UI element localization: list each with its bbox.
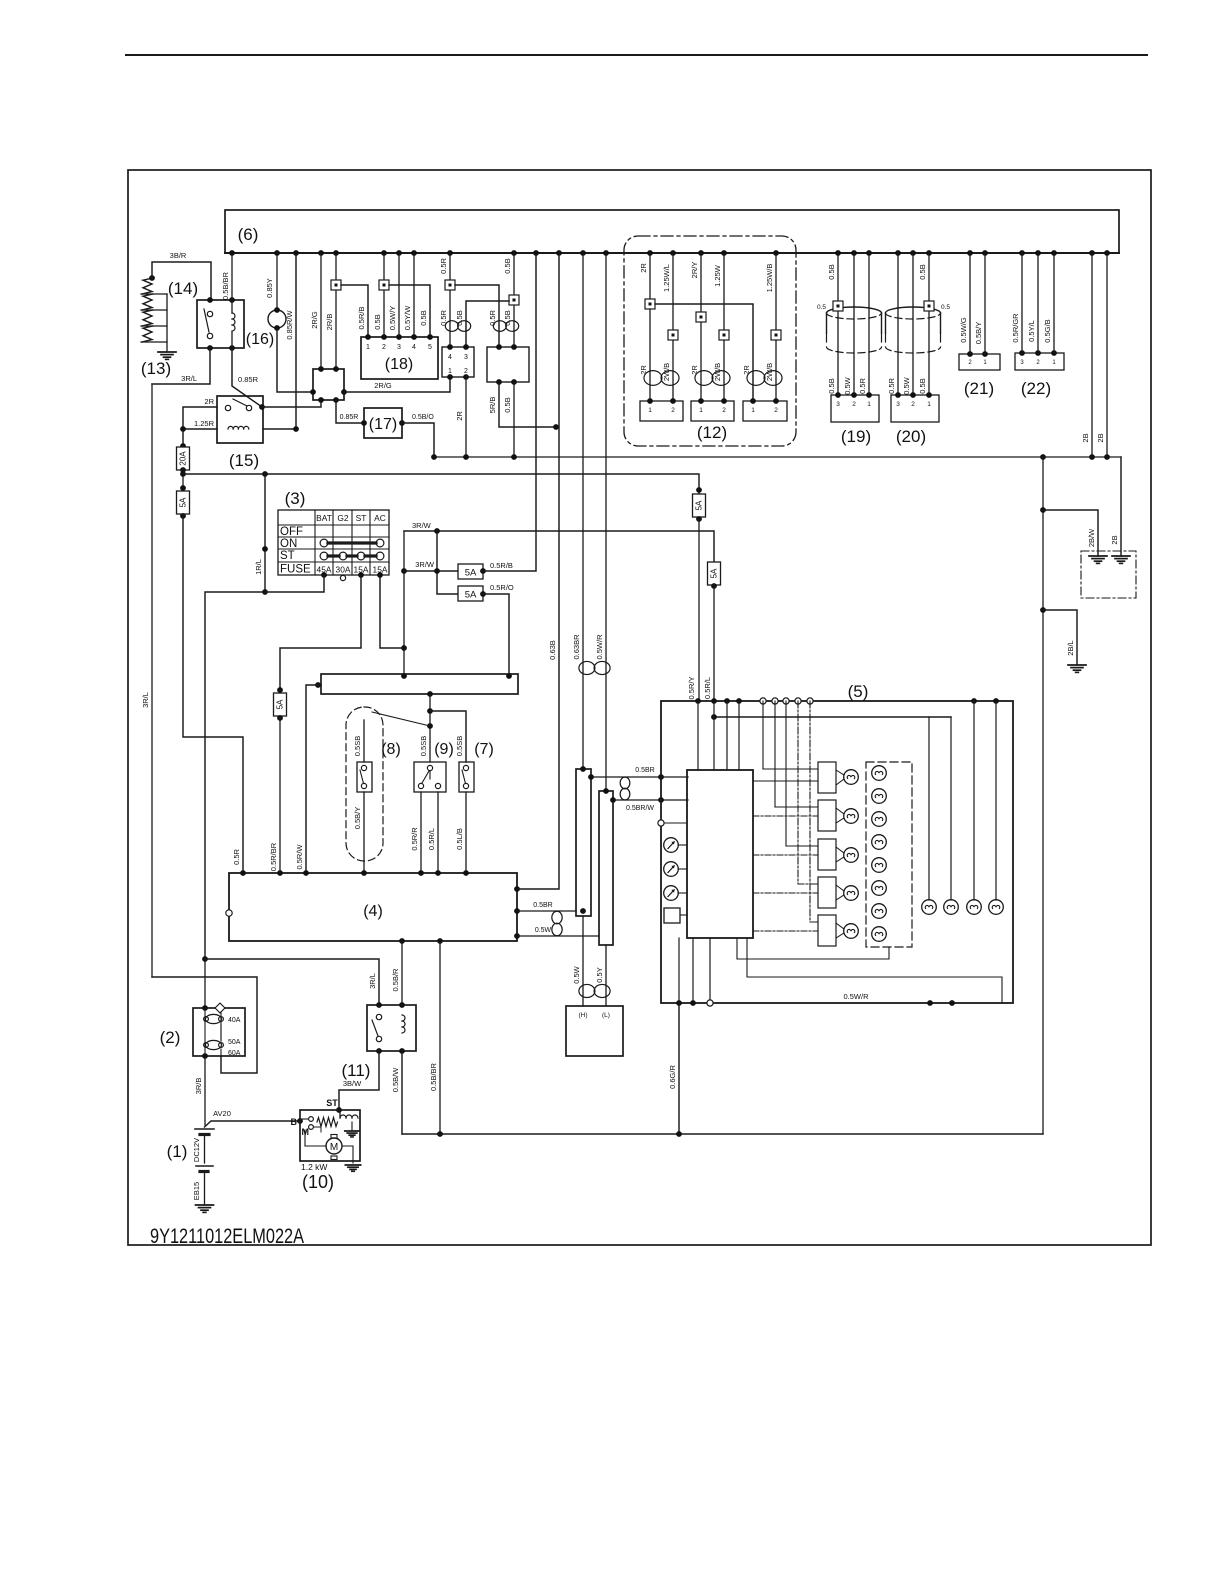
svg-text:1.25R: 1.25R: [194, 419, 215, 428]
twist pair second: [493, 321, 518, 332]
wire 60A to 3R/L riser: [152, 977, 257, 1073]
panel bottom rail 0.5W/R: [676, 992, 955, 1006]
ground box dashed: [1081, 551, 1136, 598]
svg-text:4: 4: [448, 354, 452, 361]
svg-text:0.5BR: 0.5BR: [635, 767, 654, 774]
wire (14) coil to node: [231, 332, 233, 348]
wire 0.5R/L (9) to (4): [427, 792, 438, 873]
wire 2B bus drop a: [1081, 253, 1092, 457]
svg-text:3B/R: 3B/R: [170, 251, 187, 260]
svg-text:(16): (16): [246, 331, 274, 348]
svg-text:1: 1: [983, 360, 987, 366]
svg-text:(19): (19): [841, 427, 871, 446]
connector square inj1b: [668, 330, 678, 340]
svg-text:2B/W: 2B/W: [1087, 528, 1096, 547]
wire 0.5R/BR fuse to (4): [269, 717, 280, 873]
svg-text:0.6G/R: 0.6G/R: [668, 1065, 677, 1089]
wire 0.5B/O from (17): [402, 414, 434, 457]
svg-text:2: 2: [1036, 360, 1040, 366]
wires pcb to lamp rows: [753, 701, 818, 931]
wires right lamps up: [929, 701, 996, 900]
battery (1): [167, 1129, 214, 1205]
wire 0.5W sender19 pin2: [843, 253, 854, 395]
connector square inj3b: [771, 330, 781, 340]
svg-text:ST: ST: [326, 1098, 338, 1108]
svg-text:AV20: AV20: [213, 1109, 231, 1118]
svg-text:0.5R/BR: 0.5R/BR: [269, 842, 278, 871]
svg-text:2: 2: [722, 407, 726, 414]
svg-text:0.5R: 0.5R: [232, 848, 241, 864]
svg-text:0.63BR: 0.63BR: [572, 634, 581, 660]
svg-text:1: 1: [648, 407, 652, 414]
svg-text:2: 2: [464, 368, 468, 375]
wire 0.5R fuse to controller (4): [183, 514, 243, 873]
fuse 5A 0.5R/Y: [693, 487, 706, 522]
wire 0.5B link to (18) pin5: [389, 285, 430, 337]
wire battery trunk: [194, 956, 208, 1094]
drawing number label: [150, 1225, 304, 1249]
svg-text:(20): (20): [896, 427, 926, 446]
fuse 5A 0.5R/O: [458, 586, 486, 601]
lamp connector row: [818, 762, 836, 946]
svg-text:0.5B: 0.5B: [503, 258, 512, 273]
svg-text:30A: 30A: [336, 565, 351, 575]
wire 2B/L ground: [1043, 610, 1077, 665]
connector square inj2: [696, 312, 706, 322]
wire 0.5L/B (7) to (4): [455, 792, 466, 873]
svg-text:0.5B/BR: 0.5B/BR: [221, 271, 230, 300]
svg-text:2: 2: [852, 401, 856, 408]
svg-text:0.63B: 0.63B: [548, 640, 557, 660]
wire ground trunk bottom: [402, 1131, 1043, 1137]
svg-text:5R/B: 5R/B: [488, 397, 497, 414]
svg-text:5A: 5A: [465, 590, 477, 601]
connector strip: [315, 673, 518, 697]
svg-text:(18): (18): [385, 356, 413, 373]
svg-text:(H): (H): [578, 1012, 587, 1019]
svg-text:3: 3: [464, 354, 468, 361]
wire bus from (6): [225, 252, 1119, 254]
svg-text:0.5B: 0.5B: [918, 378, 927, 393]
svg-text:(9): (9): [434, 741, 454, 758]
ground glow plugs: [158, 352, 176, 359]
svg-text:0.5W/G: 0.5W/G: [959, 317, 968, 343]
wire 2B bus drop b: [1096, 253, 1107, 457]
ground 2B/L: [1068, 665, 1086, 672]
svg-text:0.5L/B: 0.5L/B: [455, 828, 464, 850]
wire 3B/R glow to relay (14): [152, 251, 211, 301]
ground 2B/W: [1089, 556, 1107, 563]
connector square 2R/B: [331, 280, 341, 290]
svg-text:2B: 2B: [1110, 535, 1119, 544]
wire 2R inj1: [639, 253, 650, 299]
twist pair meter: [579, 661, 610, 674]
wire 2R/B bus drop: [325, 253, 336, 369]
glow plugs (13): [141, 275, 171, 378]
link internal wires: [205, 1008, 221, 1056]
wire 3R/W riser: [401, 531, 407, 674]
junction box: [310, 366, 347, 403]
svg-text:G2: G2: [337, 513, 349, 523]
svg-text:0.5R/O: 0.5R/O: [490, 583, 514, 592]
wire 0.5W meter H: [572, 908, 586, 1006]
panel open node: [658, 820, 687, 826]
svg-text:2W/B: 2W/B: [765, 363, 774, 381]
wire 0.5B sender20 pin1: [918, 253, 929, 395]
svg-text:(12): (12): [697, 423, 727, 442]
svg-text:0.5R: 0.5R: [858, 377, 867, 393]
svg-text:0.5: 0.5: [941, 304, 950, 311]
wire 0.5R/O to strip: [483, 583, 514, 674]
glow plug connector 3: [743, 398, 787, 421]
svg-text:DC12V: DC12V: [192, 1138, 201, 1162]
twist pair inj1: [644, 371, 679, 386]
connector square 19: [817, 301, 843, 311]
lamp ground return: [737, 938, 889, 959]
svg-text:5A: 5A: [276, 699, 285, 709]
wire battery positive: [204, 1056, 206, 1125]
svg-text:2: 2: [911, 401, 915, 408]
svg-text:(8): (8): [381, 741, 401, 758]
svg-text:5A: 5A: [465, 568, 477, 579]
svg-text:(2): (2): [160, 1028, 181, 1047]
glow harness boundary (12): [624, 236, 796, 446]
connector (22): [1015, 350, 1064, 398]
svg-text:(4): (4): [363, 903, 383, 920]
node 30A: [340, 575, 345, 580]
connector square 0.5R: [445, 280, 455, 290]
svg-text:1: 1: [448, 368, 452, 375]
wire 0.5R bus to sensor box: [439, 253, 450, 347]
svg-text:3R/W: 3R/W: [412, 521, 432, 530]
wire 0.5B/R (4) to (11) coil: [391, 941, 402, 1005]
wire 1.25W/L inj1: [662, 253, 673, 401]
wire 0.5R/W strip to (4): [295, 685, 321, 873]
svg-text:2R/G: 2R/G: [374, 381, 392, 390]
wire 0.5R/B to bus: [483, 253, 536, 571]
temp sender (20): [886, 307, 941, 446]
wire 0.5G/B: [1043, 253, 1054, 353]
svg-text:0.5R/B: 0.5R/B: [357, 307, 366, 330]
svg-text:0.5W: 0.5W: [535, 927, 552, 934]
wire 0.5Y meter L: [595, 945, 606, 1006]
svg-text:OFF: OFF: [280, 526, 303, 538]
meter panel (5): [661, 682, 1013, 1003]
switch (8): [353, 720, 401, 792]
svg-text:0.5B: 0.5B: [918, 264, 927, 279]
svg-text:3R/B: 3R/B: [194, 1078, 203, 1095]
svg-text:3R/L: 3R/L: [141, 692, 150, 708]
svg-text:2R: 2R: [455, 411, 464, 421]
svg-text:(14): (14): [168, 279, 198, 298]
key switch (3): [278, 489, 389, 576]
wire 2R/G junction to glow controller: [344, 377, 450, 392]
connector square 20: [924, 301, 950, 311]
svg-text:0.5B/Y: 0.5B/Y: [353, 807, 362, 830]
wire 0.5B/O trunk: [431, 454, 1121, 460]
svg-text:0.5SB: 0.5SB: [353, 736, 362, 756]
svg-text:(21): (21): [964, 379, 994, 398]
fuel sender (19): [827, 307, 882, 446]
wire (15) contact to junction box: [262, 400, 321, 407]
svg-text:50A: 50A: [228, 1039, 241, 1046]
wire 0.5B/Y (8) to (4): [353, 792, 364, 873]
wire link to second box: [455, 285, 499, 347]
ground 2B: [1110, 535, 1130, 563]
svg-text:2: 2: [382, 344, 386, 351]
wire strip to switches: [427, 694, 433, 762]
switch (9): [414, 736, 454, 792]
svg-text:3: 3: [397, 344, 401, 351]
svg-text:0.5B: 0.5B: [419, 310, 428, 325]
wire 3R/W upper to fuse: [404, 521, 714, 562]
gauge volt: [664, 886, 687, 901]
switch (7): [430, 711, 494, 792]
panel pcb: [687, 770, 753, 938]
svg-text:0.5R/R: 0.5R/R: [410, 827, 419, 851]
connector square 0.5B right: [509, 295, 519, 305]
wire 2B/W ground: [1043, 510, 1098, 556]
wire 0.5R/R (9) to (4): [410, 792, 421, 873]
sensor box second: [487, 344, 529, 385]
wire 2R to main line: [455, 377, 466, 457]
connector square inj1: [645, 299, 655, 309]
wire branch 2R to inj3: [655, 304, 753, 401]
svg-text:5A: 5A: [695, 500, 704, 510]
ground battery: [196, 1205, 214, 1212]
wire 0.5W/G: [959, 253, 970, 354]
svg-text:0.5B: 0.5B: [503, 397, 512, 412]
wire 0.5R/B link to (18) pin1: [341, 285, 368, 337]
svg-text:0.5BR/W: 0.5BR/W: [626, 805, 654, 812]
bus junction nodes: [229, 250, 1110, 256]
svg-text:3B/W: 3B/W: [343, 1079, 362, 1088]
wire 0.5B bus to (18) pin2: [373, 253, 384, 337]
svg-text:0.5B/O: 0.5B/O: [412, 414, 434, 421]
svg-text:5: 5: [428, 344, 432, 351]
svg-text:0.5Y: 0.5Y: [595, 967, 604, 982]
wire AC pin: [377, 572, 404, 648]
svg-text:0.5R/GR: 0.5R/GR: [1011, 313, 1020, 343]
svg-text:3R/L: 3R/L: [368, 973, 377, 989]
wire 1.25R (15) coil left: [180, 419, 217, 449]
svg-text:0.5B: 0.5B: [827, 378, 836, 393]
sensor box first: [442, 344, 474, 380]
wire 3R/L from (14) switch: [152, 348, 210, 384]
ground return trunk: [1040, 457, 1046, 1134]
label 60A: [228, 1050, 241, 1057]
svg-text:EB15: EB15: [192, 1182, 201, 1200]
svg-text:2R: 2R: [204, 397, 214, 406]
wire 0.5W (4) to connector B: [517, 927, 599, 936]
wire 0.5B/W (11) coil down: [391, 1051, 402, 1134]
wire 0.85R/W bus to (15) coil: [263, 253, 299, 432]
twist pair inj3: [747, 371, 782, 386]
fuse 5A left: [177, 485, 190, 519]
svg-text:2B: 2B: [1096, 433, 1105, 442]
wire 0.5B/BR bus to (14) coil: [221, 253, 232, 313]
svg-text:(3): (3): [285, 489, 306, 508]
svg-text:0.5R/B: 0.5R/B: [490, 561, 513, 570]
sender connector 20: [891, 392, 939, 422]
svg-text:1.25W/L: 1.25W/L: [662, 264, 671, 292]
twist pair first: [445, 321, 470, 332]
svg-text:0.5R: 0.5R: [887, 377, 896, 393]
connector (21): [959, 351, 1000, 398]
warning lamps: [844, 770, 859, 939]
svg-text:0.5R/L: 0.5R/L: [703, 677, 712, 699]
panel inner bus: [711, 714, 951, 720]
wire 0.5R/GR: [1011, 253, 1022, 353]
svg-text:AC: AC: [374, 513, 386, 523]
fuse 5A meter: [274, 687, 287, 721]
page top rule: [126, 54, 1147, 56]
svg-text:1: 1: [699, 407, 703, 414]
svg-text:2R: 2R: [639, 263, 648, 273]
svg-text:5A: 5A: [179, 497, 188, 507]
indicator lamps: [872, 766, 887, 942]
svg-text:(5): (5): [848, 682, 869, 701]
svg-text:ST: ST: [356, 513, 367, 523]
wire 0.5B sender19 pin3: [827, 253, 838, 395]
svg-text:(10): (10): [302, 1172, 334, 1192]
wire (11) feed: [205, 959, 379, 1005]
svg-text:0.5B/R: 0.5B/R: [391, 968, 400, 992]
connector square 0.5B: [379, 280, 389, 290]
svg-text:0.5W: 0.5W: [843, 376, 852, 394]
svg-text:5A: 5A: [710, 568, 719, 578]
wire junction to (17) 0.85R: [336, 400, 364, 423]
svg-text:0.5R: 0.5R: [488, 309, 497, 325]
svg-text:(15): (15): [229, 451, 259, 470]
svg-text:2: 2: [968, 360, 972, 366]
wire 2R/Y inj2: [690, 253, 701, 401]
wire ST pin to fuse 5A: [280, 572, 364, 693]
glow plug relay (14): [168, 279, 244, 351]
lamp prongs: [836, 770, 844, 938]
lever boundary dashed: [346, 707, 383, 861]
fuse 5A 0.5R/L: [708, 562, 721, 589]
svg-text:M: M: [330, 1142, 338, 1153]
svg-text:(L): (L): [602, 1012, 610, 1019]
svg-text:3: 3: [836, 401, 840, 408]
svg-text:0.5B: 0.5B: [827, 264, 836, 279]
wire 0.5BR/W connector B to (5): [610, 797, 688, 812]
svg-text:0.5R/W: 0.5R/W: [295, 844, 304, 870]
svg-text:1: 1: [751, 407, 755, 414]
panel bottom wires: [679, 938, 713, 1006]
buzzer (16): [246, 307, 286, 348]
wire 2B ground right: [1120, 457, 1122, 556]
link diamond: [215, 1003, 225, 1013]
sender connector 19: [831, 392, 879, 422]
wire 0.5B/BR (4) to ground trunk: [429, 941, 440, 1134]
svg-text:3R/W: 3R/W: [415, 560, 435, 569]
svg-text:0.5B/Y: 0.5B/Y: [974, 322, 983, 345]
svg-text:0.5R/Y: 0.5R/Y: [687, 677, 696, 700]
svg-text:1R/L: 1R/L: [254, 559, 263, 575]
controller (4): [226, 870, 520, 944]
svg-text:0.5SB: 0.5SB: [455, 736, 464, 756]
svg-text:B: B: [291, 1117, 298, 1127]
wire 0.6G/R panel ground: [668, 1003, 679, 1134]
connector B: [599, 788, 613, 945]
outer frame: [128, 170, 1151, 1245]
svg-text:0.5G/B: 0.5G/B: [1043, 319, 1052, 342]
svg-text:0.5Y/L: 0.5Y/L: [1027, 320, 1036, 342]
twist pair meter HL: [579, 984, 610, 997]
svg-text:2R/B: 2R/B: [325, 314, 334, 331]
svg-text:(11): (11): [342, 1061, 371, 1080]
fuse 20A: [177, 447, 190, 473]
wire branch to lower fuse: [434, 531, 458, 594]
svg-text:0.5SB: 0.5SB: [419, 736, 428, 756]
svg-text:2: 2: [774, 407, 778, 414]
svg-text:60A: 60A: [228, 1050, 241, 1057]
wire 3R/W lower: [404, 560, 458, 571]
wire battery to BAT pin: [205, 575, 324, 959]
svg-text:0.5W/R: 0.5W/R: [595, 634, 604, 660]
gauge temp: [664, 862, 687, 877]
wire 3R/L left drop: [141, 384, 152, 977]
wire 0.5R sender20 pin3: [887, 253, 898, 395]
svg-text:2B: 2B: [1081, 433, 1090, 442]
svg-text:9Y1211012ELM022A: 9Y1211012ELM022A: [150, 1225, 304, 1249]
svg-text:2W/B: 2W/B: [662, 363, 671, 381]
svg-text:20A: 20A: [179, 451, 188, 466]
svg-text:3: 3: [896, 401, 900, 408]
wire 2R (15) left: [183, 397, 217, 429]
wire 0.5BR connector A to (5): [588, 767, 688, 780]
svg-text:0.5R/L: 0.5R/L: [427, 828, 436, 850]
svg-text:(13): (13): [141, 359, 171, 378]
wire link 0.5B to first box: [455, 301, 509, 347]
svg-text:(6): (6): [238, 225, 259, 244]
svg-text:1: 1: [1052, 360, 1056, 366]
svg-text:2R/G: 2R/G: [310, 311, 319, 329]
wire 0.5R/L to panel (5): [703, 585, 714, 701]
connector square inj2b: [719, 330, 729, 340]
panel top nodes: [695, 698, 999, 704]
fusible link box (2): [160, 1005, 245, 1059]
twist pair panel feed: [620, 777, 630, 800]
svg-text:1: 1: [927, 401, 931, 408]
svg-text:ON: ON: [280, 538, 297, 550]
junction connector (6): [225, 210, 1119, 253]
wire 0.63B bus to (4): [517, 253, 559, 889]
svg-text:0.5R: 0.5R: [439, 257, 448, 273]
relay (11): [342, 1002, 416, 1080]
svg-text:1.25W: 1.25W: [713, 264, 722, 287]
svg-text:0.5W: 0.5W: [902, 376, 911, 394]
svg-text:0.5B: 0.5B: [503, 310, 512, 325]
svg-text:2B/L: 2B/L: [1066, 640, 1075, 655]
link to lever: [372, 712, 430, 726]
hourmeter square: [664, 908, 687, 923]
svg-text:0.85Y: 0.85Y: [265, 278, 274, 298]
svg-text:0.5W/Y: 0.5W/Y: [388, 306, 397, 331]
wire 3B/W (11) to starter ST: [326, 1051, 379, 1113]
wire ACC feed 20A to fuse 5A row: [180, 470, 186, 491]
twist pair 0.5BR 0.5W: [552, 911, 562, 936]
wire 0.5B drop: [503, 382, 514, 457]
wire 2R/G bus drop: [310, 253, 321, 369]
svg-text:2W/B: 2W/B: [713, 363, 722, 381]
svg-text:0.5: 0.5: [817, 304, 826, 311]
wire 0.5R/Y to panel (5): [687, 517, 699, 701]
svg-text:FUSE: FUSE: [280, 564, 311, 576]
starter motor (10): [291, 1110, 361, 1192]
